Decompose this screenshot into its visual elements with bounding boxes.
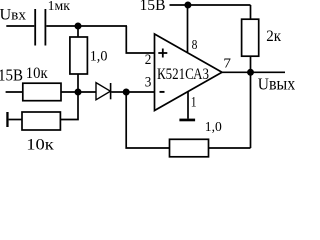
svg-text:15В: 15В bbox=[0, 65, 23, 84]
svg-text:3: 3 bbox=[145, 74, 152, 90]
svg-text:1,0: 1,0 bbox=[205, 119, 222, 134]
wire pin 1 down bbox=[187, 91, 189, 118]
node junction dot B (R2 / R3 / diode) bbox=[75, 89, 82, 96]
ground bbox=[179, 119, 195, 122]
svg-text:2к: 2к bbox=[266, 28, 281, 45]
capacitor C1 1мк bbox=[34, 9, 46, 46]
wire input to capacitor bbox=[6, 25, 34, 27]
wire corner down to pin2 level bbox=[126, 26, 154, 53]
wire 15В to R2 bbox=[6, 91, 23, 93]
svg-text:10к: 10к bbox=[26, 135, 54, 153]
wire terminal to R3 bbox=[9, 119, 22, 121]
svg-text:15В: 15В bbox=[140, 0, 166, 14]
resistor R5 1,0 (feedback) bbox=[170, 139, 209, 157]
wire capacitor to corner bbox=[46, 25, 127, 27]
wire output bbox=[222, 71, 285, 73]
diode VD1 bbox=[96, 83, 111, 100]
wire rail corner down to R4 bbox=[250, 5, 252, 19]
node junction dot C (diode / pin3 / feedback) bbox=[123, 89, 130, 96]
resistor R1 1,0 (vertical) bbox=[70, 26, 88, 92]
svg-text:1: 1 bbox=[191, 94, 197, 110]
svg-text:1мк: 1мк bbox=[48, 0, 71, 13]
wire pin 8 riser bbox=[187, 5, 189, 52]
resistor R2 10к (horizontal top) bbox=[23, 83, 61, 101]
node junction dot E (output) bbox=[247, 69, 254, 76]
svg-text:Uвых: Uвых bbox=[258, 74, 295, 94]
resistor R3 10к (horizontal bottom) bbox=[22, 112, 60, 130]
svg-text:8: 8 bbox=[192, 37, 198, 52]
op-amp + input mark bbox=[158, 49, 167, 58]
wire R4 to output node bbox=[250, 56, 252, 72]
wire R3 up to node B bbox=[60, 92, 78, 120]
wire diode to node C bbox=[111, 91, 126, 93]
op-amp - input mark bbox=[160, 91, 165, 93]
node junction dot D (rail / pin8) bbox=[184, 2, 191, 9]
svg-text:10к: 10к bbox=[26, 65, 48, 82]
resistor R4 2к (vertical right) bbox=[242, 19, 259, 56]
wire feedback riser to output node bbox=[250, 72, 252, 148]
svg-text:2: 2 bbox=[145, 52, 152, 68]
svg-text:Uвх: Uвх bbox=[0, 7, 27, 24]
svg-text:К521СА3: К521СА3 bbox=[157, 66, 209, 83]
terminal bar (lower input) bbox=[6, 112, 8, 127]
wire node C to op-amp pin 3 bbox=[126, 91, 154, 93]
wire top rail bbox=[170, 4, 251, 6]
svg-text:1,0: 1,0 bbox=[90, 48, 108, 64]
op-amp U1 К521СА3 bbox=[155, 34, 223, 111]
node junction dot A (cap / R1) bbox=[75, 23, 82, 30]
svg-text:7: 7 bbox=[223, 56, 231, 71]
wire R2 to diode bbox=[61, 91, 96, 93]
wire feedback: node C down and across bbox=[126, 92, 250, 148]
